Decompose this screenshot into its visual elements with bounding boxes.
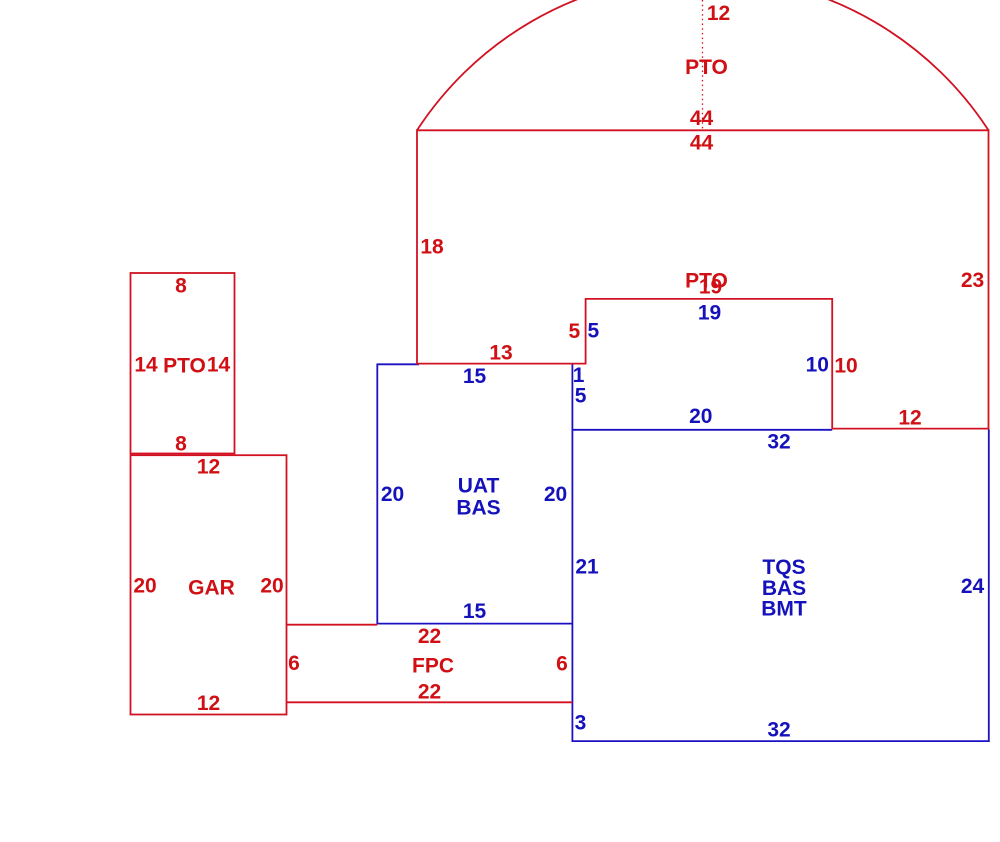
- svg-text:8: 8: [175, 433, 187, 456]
- wall UAT left (blue): [376, 364, 378, 625]
- svg-text:12: 12: [197, 456, 220, 479]
- svg-text:BAS: BAS: [456, 497, 500, 520]
- svg-text:32: 32: [767, 431, 790, 454]
- svg-text:20: 20: [260, 575, 283, 598]
- svg-text:18: 18: [420, 236, 444, 259]
- svg-text:20: 20: [689, 405, 712, 428]
- svg-text:PTO: PTO: [163, 355, 206, 378]
- svg-text:44: 44: [690, 107, 714, 130]
- svg-text:GAR: GAR: [188, 577, 235, 600]
- area PTO left box (red rect): [131, 273, 235, 454]
- svg-text:8: 8: [175, 275, 187, 298]
- svg-text:22: 22: [418, 625, 441, 648]
- svg-text:19: 19: [699, 276, 722, 299]
- wall UAT top stub (blue): [377, 363, 419, 365]
- svg-text:12: 12: [707, 2, 730, 25]
- svg-text:44: 44: [690, 132, 714, 155]
- svg-text:20: 20: [544, 483, 567, 506]
- wall TQS bottom (blue): [572, 740, 990, 742]
- svg-text:15: 15: [463, 365, 487, 388]
- svg-text:3: 3: [575, 712, 587, 735]
- wall TQS right (blue): [988, 430, 990, 742]
- arc porch PTO outline (red arc): [417, 0, 989, 130]
- svg-text:12: 12: [197, 692, 220, 715]
- area GAR box (red rect): [131, 455, 287, 714]
- svg-text:FPC: FPC: [412, 655, 454, 678]
- svg-text:20: 20: [133, 575, 156, 598]
- svg-text:19: 19: [698, 301, 721, 324]
- centerline of arc (dotted red): [702, 0, 704, 130]
- svg-text:BMT: BMT: [761, 598, 807, 621]
- svg-text:32: 32: [767, 719, 790, 742]
- wall BAS bottom / TQS top (blue): [572, 429, 833, 431]
- wall UAT right / BAS left / TQS left (blue): [571, 364, 573, 742]
- svg-text:5: 5: [569, 320, 581, 343]
- svg-text:UAT: UAT: [458, 475, 500, 498]
- svg-text:12: 12: [898, 407, 921, 430]
- main upper red outline (44x23 region with step): [417, 130, 989, 428]
- svg-text:24: 24: [961, 575, 985, 598]
- svg-text:10: 10: [834, 355, 857, 378]
- svg-text:5: 5: [587, 320, 599, 343]
- wall FPC bottom (red): [287, 701, 573, 703]
- svg-text:6: 6: [556, 653, 568, 676]
- svg-text:23: 23: [961, 269, 984, 292]
- svg-text:TQS: TQS: [762, 556, 805, 579]
- svg-text:5: 5: [575, 384, 587, 407]
- wall UAT bottom (blue): [377, 623, 572, 625]
- svg-text:15: 15: [463, 600, 487, 623]
- svg-text:20: 20: [381, 483, 404, 506]
- svg-text:22: 22: [418, 681, 441, 704]
- svg-text:10: 10: [806, 354, 829, 377]
- svg-text:PTO: PTO: [685, 56, 728, 79]
- svg-text:13: 13: [489, 342, 512, 365]
- wall FPC top stub (red): [287, 624, 378, 626]
- svg-text:14: 14: [134, 354, 158, 377]
- svg-text:21: 21: [575, 556, 599, 579]
- svg-text:6: 6: [288, 652, 300, 675]
- svg-text:14: 14: [207, 354, 231, 377]
